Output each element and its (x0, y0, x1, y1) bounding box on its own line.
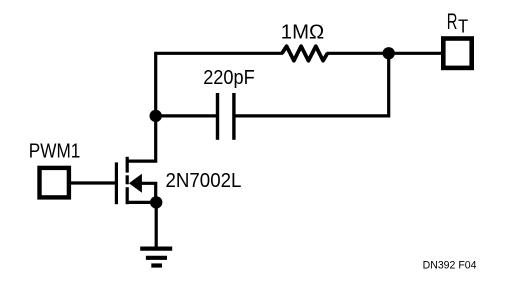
terminal PWM1 box (40, 168, 69, 198)
capacitor C 220pF right plate (232, 93, 235, 140)
wire: drain lead + left riser + top wire left segment (127, 53, 283, 161)
node junction dot at gate/cap/drain net (150, 110, 162, 122)
wire: top wire right segment to RT terminal (327, 52, 442, 55)
capacitor C 220pF left plate (216, 93, 219, 140)
transistor Q1 2N7002L gate bar (115, 162, 118, 204)
svg-text:DN392 F04: DN392 F04 (423, 259, 477, 271)
svg-text:PWM1: PWM1 (29, 140, 81, 162)
transistor Q1 channel segment body (126, 175, 129, 184)
wire: capacitor right plate to output node riser (234, 53, 389, 116)
svg-text:T: T (458, 16, 468, 36)
transistor Q1 body arrow (129, 174, 142, 193)
wire: source lead (127, 201, 156, 204)
wire: node to capacitor left plate (156, 114, 218, 117)
svg-text:R: R (447, 9, 458, 34)
resistor R 1M (282, 46, 327, 61)
ground symbol (140, 249, 172, 266)
svg-text:220pF: 220pF (203, 67, 255, 89)
terminal RT box (443, 39, 471, 68)
wire: body lead to source node (141, 183, 156, 202)
wire: gate lead from PWM1 (69, 181, 116, 184)
wire: source to ground (155, 202, 158, 248)
node junction dot at source/body (150, 196, 162, 208)
node junction dot at resistor/cap output (383, 47, 395, 59)
transistor Q1 channel segment drain (126, 157, 129, 173)
transistor Q1 channel segment source (126, 187, 129, 204)
svg-text:1MΩ: 1MΩ (281, 21, 324, 43)
svg-text:2N7002L: 2N7002L (166, 170, 242, 192)
